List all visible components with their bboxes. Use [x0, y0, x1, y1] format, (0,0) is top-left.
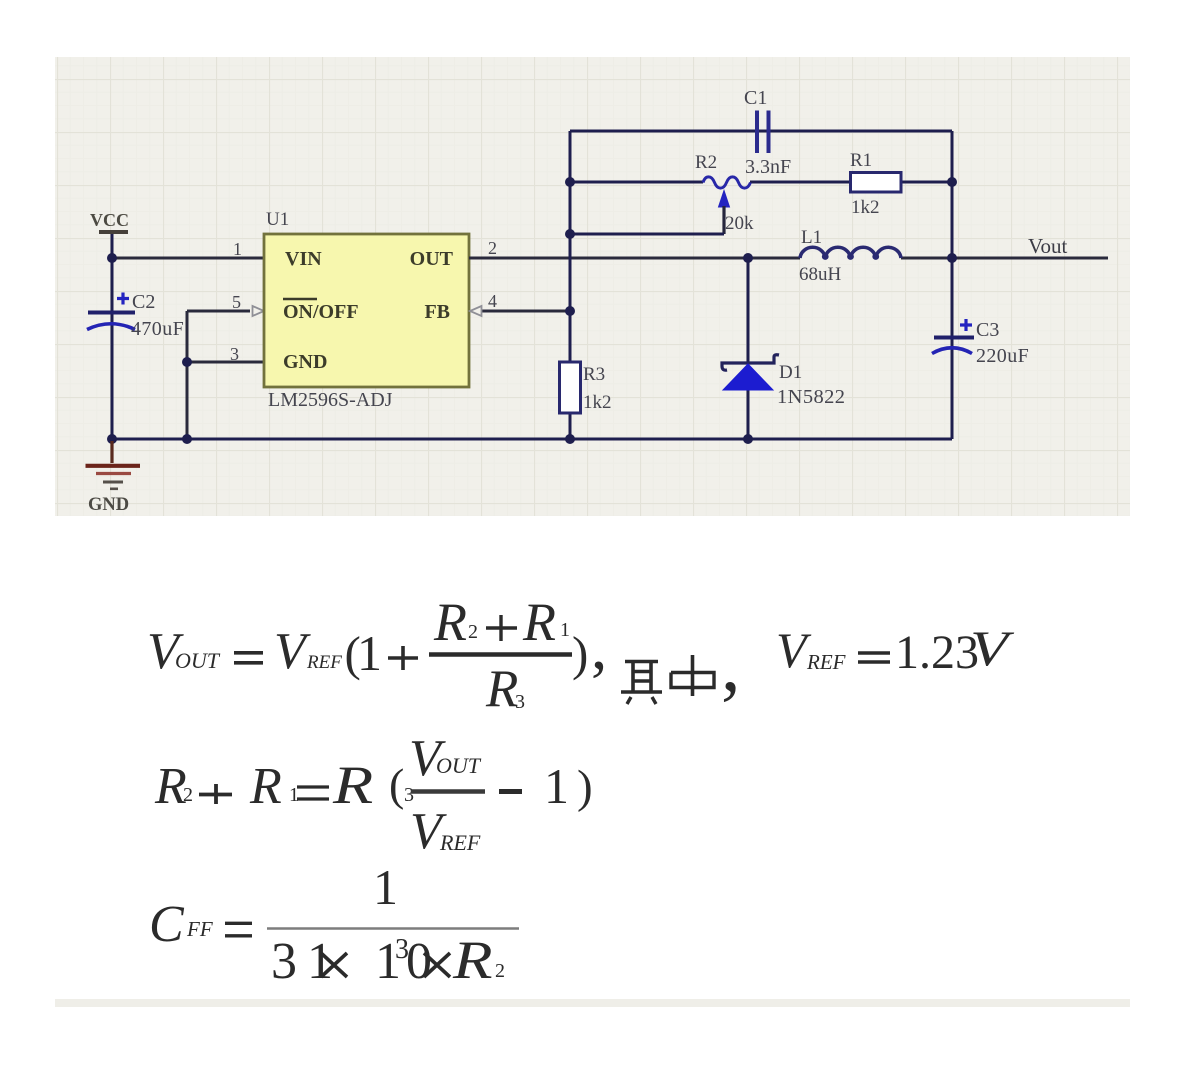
- svg-text:R: R: [332, 755, 373, 815]
- node: Vout / right rail junction: [947, 253, 957, 263]
- svg-text:REF: REF: [439, 830, 481, 855]
- svg-text:,: ,: [591, 611, 607, 683]
- ground rail (bottom): [112, 438, 952, 441]
- ground symbol GND: [86, 441, 141, 515]
- svg-text:470uF: 470uF: [131, 318, 184, 340]
- svg-text:LM2596S-ADJ: LM2596S-ADJ: [268, 389, 393, 411]
- svg-text:Vout: Vout: [1028, 234, 1067, 258]
- svg-text:3.3nF: 3.3nF: [745, 156, 791, 178]
- wire: VIN (pin 1): [112, 257, 264, 260]
- diode D1 branch wire: [747, 258, 750, 439]
- capacitor C1: [744, 87, 791, 178]
- svg-text:R: R: [452, 930, 493, 990]
- svg-text:ON/OFF: ON/OFF: [283, 301, 359, 323]
- svg-text:5: 5: [232, 292, 241, 312]
- svg-text:2: 2: [183, 784, 193, 806]
- wire: R2/R1 rail: [570, 181, 952, 184]
- svg-text:FF: FF: [186, 917, 213, 941]
- svg-text:1: 1: [357, 625, 382, 681]
- node: R1 / right rail junction: [947, 177, 957, 187]
- svg-text:3: 3: [515, 691, 525, 713]
- node: OUT wire / D1 junction: [743, 253, 753, 263]
- power symbol VCC: [99, 230, 128, 234]
- wire: top rail (C1 branch): [570, 130, 952, 133]
- svg-text:): ): [577, 761, 593, 813]
- node: pin3 junction: [182, 357, 192, 367]
- text Vref = 1.23V: [776, 622, 1014, 679]
- svg-text:OUT: OUT: [175, 648, 221, 673]
- svg-text:C3: C3: [976, 319, 999, 341]
- node: D1 / ground rail junction: [743, 434, 753, 444]
- op IC U1 LM2596S-ADJ: [264, 209, 469, 411]
- svg-text:C1: C1: [744, 87, 767, 109]
- formula 3: Cff = 1/(31 x 10^3 x R2): [149, 859, 519, 990]
- wire: mid feedback rail: [569, 131, 572, 439]
- svg-text:1: 1: [373, 859, 398, 915]
- node: FB junction: [565, 306, 575, 316]
- svg-text:3: 3: [230, 344, 239, 364]
- svg-text:FB: FB: [424, 301, 450, 323]
- svg-text:1: 1: [560, 619, 570, 641]
- capacitor C2: [87, 291, 184, 340]
- svg-text:2: 2: [495, 960, 505, 982]
- wire: ON/OFF vertical: [186, 311, 189, 439]
- wire: right output rail: [951, 131, 954, 439]
- svg-text:R2: R2: [695, 152, 717, 173]
- potentiometer R2: [695, 152, 754, 234]
- wire: VCC vertical rail: [111, 233, 114, 439]
- svg-text:(: (: [389, 759, 404, 810]
- wire: pin 3: [187, 361, 264, 364]
- capacitor C3: [932, 319, 1029, 367]
- svg-text:U1: U1: [266, 209, 289, 230]
- wire: OUT (pin 2) to L1: [469, 257, 800, 260]
- svg-text:C: C: [149, 896, 185, 953]
- svg-text:,: ,: [721, 620, 741, 707]
- svg-text:GND: GND: [283, 351, 327, 373]
- bottom faint strip: [55, 999, 1130, 1007]
- formula 1: Vout = Vref(1+(R2+R1)/R3): [147, 592, 607, 718]
- svg-text:R3: R3: [583, 364, 605, 385]
- pin 5 open arrow: [253, 306, 265, 316]
- svg-text:2: 2: [468, 621, 478, 643]
- svg-text:1: 1: [233, 239, 242, 259]
- wire: L1 to Vout: [901, 257, 1108, 260]
- node: mid rail / wiper return junction: [565, 229, 575, 239]
- svg-text:3: 3: [271, 933, 297, 990]
- node: VCC rail / ground rail junction: [107, 434, 117, 444]
- svg-text:): ): [572, 626, 588, 681]
- node: mid rail / R2 rail junction: [565, 177, 575, 187]
- diode D1 1N5822: [722, 355, 845, 408]
- svg-text:20k: 20k: [725, 213, 754, 234]
- svg-text:D1: D1: [779, 362, 802, 383]
- svg-text:1k2: 1k2: [583, 392, 612, 413]
- svg-text:4: 4: [488, 291, 497, 311]
- svg-text:2: 2: [488, 238, 497, 258]
- svg-text:V: V: [970, 622, 1014, 677]
- svg-text:VIN: VIN: [285, 248, 322, 270]
- resistor R3: [560, 362, 612, 413]
- wire: pin 5: [187, 310, 250, 313]
- svg-text:C2: C2: [132, 291, 155, 313]
- svg-text:68uH: 68uH: [799, 264, 842, 285]
- svg-text:1.23: 1.23: [895, 626, 979, 679]
- text 其中,: [621, 620, 741, 707]
- resistor R1: [850, 150, 901, 218]
- wire: wiper return: [570, 233, 724, 236]
- svg-text:GND: GND: [88, 495, 129, 515]
- svg-text:OUT: OUT: [436, 753, 482, 778]
- svg-text:REF: REF: [806, 650, 846, 674]
- svg-text:R: R: [522, 592, 556, 652]
- formula 2: R2 + R1 = R3(Vout/Vref - 1): [154, 730, 593, 860]
- svg-text:L1: L1: [801, 227, 822, 248]
- schematic panel background with grid: [55, 57, 1130, 516]
- inductor L1: [799, 227, 901, 285]
- svg-text:REF: REF: [306, 652, 342, 673]
- svg-text:OUT: OUT: [410, 248, 454, 270]
- node: R3 / ground rail junction: [565, 434, 575, 444]
- wire: pin 4 FB: [482, 310, 570, 313]
- svg-text:0: 0: [406, 933, 432, 990]
- svg-text:V: V: [274, 623, 311, 680]
- svg-text:1N5822: 1N5822: [777, 386, 845, 408]
- svg-text:VCC: VCC: [90, 210, 129, 230]
- svg-text:220uF: 220uF: [976, 345, 1029, 367]
- pin 4 open arrow: [470, 306, 482, 316]
- svg-text:R: R: [485, 660, 518, 718]
- node: VIN junction: [107, 253, 117, 263]
- svg-text:1k2: 1k2: [851, 197, 880, 218]
- svg-text:R: R: [154, 758, 187, 815]
- svg-text:1: 1: [544, 758, 569, 814]
- svg-text:R1: R1: [850, 150, 872, 171]
- svg-text:R: R: [433, 592, 467, 652]
- svg-text:R: R: [249, 758, 282, 815]
- node: ON/OFF rail / ground rail junction: [182, 434, 192, 444]
